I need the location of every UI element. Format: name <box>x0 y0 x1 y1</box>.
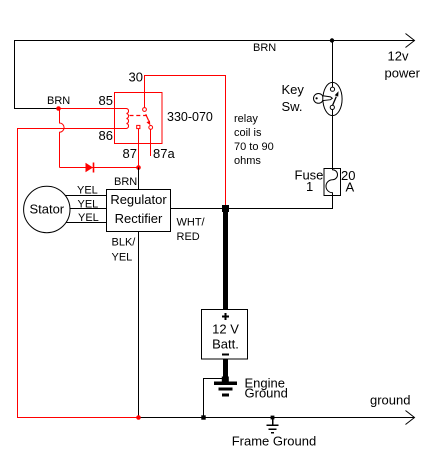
svg-text:330-070: 330-070 <box>167 110 213 124</box>
svg-text:BRN: BRN <box>114 176 137 188</box>
svg-text:Regulator: Regulator <box>110 192 167 207</box>
wire relay coil pin85 (red) <box>59 108 127 110</box>
engine ground symbol <box>214 382 237 397</box>
arrowhead ground <box>406 411 415 425</box>
node diode/pin87 junction <box>136 165 141 170</box>
diode D1 <box>86 163 94 172</box>
relay box 330-070 <box>115 93 163 144</box>
svg-text:Batt.: Batt. <box>212 337 239 352</box>
relay pin30 terminal <box>143 108 147 112</box>
battery plus sign <box>222 313 229 320</box>
svg-text:70 to 90: 70 to 90 <box>234 141 274 153</box>
svg-text:YEL: YEL <box>112 252 133 264</box>
wire pin87 down (red) <box>138 129 140 168</box>
wire engine ground branch <box>204 379 226 418</box>
svg-text:BRN: BRN <box>47 95 70 107</box>
svg-text:YEL: YEL <box>78 212 99 224</box>
wire WHT/RED from regulator to fuse <box>171 196 333 209</box>
wire relay coil pin86 (red) <box>17 128 127 130</box>
svg-text:power: power <box>385 66 421 81</box>
svg-text:87a: 87a <box>153 146 175 161</box>
svg-text:ohms: ohms <box>234 155 261 167</box>
node WHT/RED battery junction <box>222 205 229 212</box>
svg-text:A: A <box>346 180 355 195</box>
key symbol <box>314 94 324 104</box>
node BRN junction <box>56 106 61 111</box>
svg-text:RED: RED <box>177 231 200 243</box>
wire top 12v power bus <box>14 40 415 109</box>
svg-text:Sw.: Sw. <box>282 99 303 114</box>
wire ground bus <box>139 417 415 419</box>
arrowhead 12v power <box>406 34 415 48</box>
svg-text:BRN: BRN <box>253 42 276 54</box>
svg-text:Stator: Stator <box>29 202 64 217</box>
svg-text:12 V: 12 V <box>212 322 239 337</box>
svg-text:86: 86 <box>99 128 113 143</box>
wire diode net (red) <box>60 167 139 169</box>
wire BRN to regulator <box>138 168 140 190</box>
battery <box>202 310 248 360</box>
svg-text:Key: Key <box>282 82 305 97</box>
svg-text:BLK/: BLK/ <box>112 237 137 249</box>
svg-text:12v: 12v <box>388 49 409 64</box>
svg-text:1: 1 <box>306 179 313 194</box>
svg-text:85: 85 <box>99 93 113 108</box>
wire vertical with hop over pin86 wire (red) <box>60 109 65 168</box>
battery minus sign <box>222 354 229 356</box>
stator <box>24 186 70 232</box>
svg-text:30: 30 <box>129 70 143 85</box>
svg-text:YEL: YEL <box>78 199 99 211</box>
wire left red bus <box>17 128 139 418</box>
svg-text:YEL: YEL <box>77 185 98 197</box>
frame ground symbol <box>271 416 275 420</box>
svg-text:87: 87 <box>123 146 137 161</box>
relay switch blade with arrow <box>146 114 149 121</box>
svg-text:Ground: Ground <box>245 385 288 400</box>
relay pin87 terminal <box>137 125 140 128</box>
wire pin87a stub (red) <box>150 129 152 156</box>
wire thick battery positive <box>223 209 228 310</box>
svg-text:coil is: coil is <box>234 127 262 139</box>
node BLK/YEL red bus junction <box>136 415 141 420</box>
relay mechanical link (dashed) <box>130 115 148 117</box>
svg-text:Rectifier: Rectifier <box>115 211 163 226</box>
svg-text:ground: ground <box>370 393 410 408</box>
key switch <box>323 82 342 115</box>
wire stator YEL leads <box>46 196 107 223</box>
node ground bus dot <box>201 415 205 419</box>
wire pin30 to WHT/RED junction (red) <box>145 76 226 206</box>
wire BLK/YEL from regulator to ground bus <box>138 232 140 418</box>
svg-text:WHT/: WHT/ <box>177 217 206 229</box>
relay coil <box>127 109 129 129</box>
wire thick battery negative <box>223 359 228 381</box>
node key switch junction <box>330 38 334 42</box>
regulator rectifier box <box>107 190 171 232</box>
svg-text:Frame Ground: Frame Ground <box>232 434 317 449</box>
node engine ground junction <box>222 377 229 382</box>
fuse F1 <box>324 169 341 196</box>
relay pin87a terminal <box>149 126 153 130</box>
svg-text:relay: relay <box>234 113 258 125</box>
